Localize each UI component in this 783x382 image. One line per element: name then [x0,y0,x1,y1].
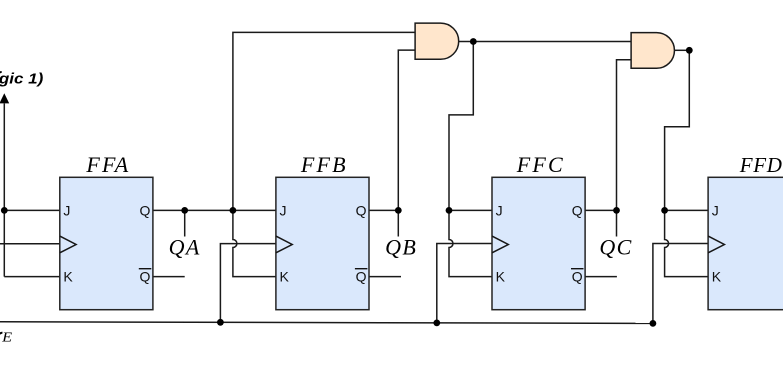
svg-text:K: K [63,269,73,285]
svg-text:FFB: FFB [300,152,348,177]
svg-text:FFA: FFA [85,152,130,177]
svg-text:K: K [496,269,506,285]
svg-text:Q: Q [140,203,151,219]
svg-text:QC: QC [599,235,632,260]
svg-text:J: J [496,203,503,219]
svg-text:gic 1): gic 1) [0,71,44,87]
svg-text:FFC: FFC [516,152,565,177]
svg-text:E: E [1,330,13,345]
svg-text:Q: Q [356,203,367,219]
svg-text:K: K [280,269,290,285]
svg-text:QA: QA [169,235,201,260]
svg-text:QB: QB [385,235,417,260]
svg-text:J: J [63,203,70,219]
svg-text:Q: Q [140,269,151,285]
svg-text:FFD: FFD [739,153,783,177]
svg-text:J: J [712,203,719,219]
svg-text:Q: Q [572,203,583,219]
svg-text:Q: Q [356,269,367,285]
svg-text:K: K [712,269,722,285]
svg-text:Q: Q [572,269,583,285]
svg-text:J: J [280,203,287,219]
